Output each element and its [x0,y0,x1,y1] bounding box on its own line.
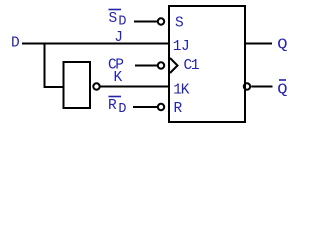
svg-text:Q: Q [277,36,287,52]
svg-text:1K: 1K [173,83,189,99]
svg-text:R: R [174,101,183,117]
wire branch into inverter input [44,86,64,88]
svg-text:1J: 1J [173,39,189,55]
overline of RD [109,96,122,98]
wire inverter bubble to 1K [101,86,170,88]
edge-trigger triangle C1 [170,58,178,73]
overline of SD [109,9,122,11]
svg-text:D: D [118,14,126,29]
wire SD to S bubble [134,21,157,23]
overline of Q-bar [279,79,286,81]
svg-text:D: D [11,36,20,52]
R input bubble [158,104,164,110]
wire RD to R bubble [133,106,157,108]
wire CP to C1 bubble [135,65,157,67]
wire D to 1J [22,43,169,45]
svg-text:Q: Q [277,82,287,98]
S input bubble [158,18,164,24]
svg-text:J: J [114,30,123,46]
flip-flop U1 body [169,6,245,122]
Q-bar output bubble [244,83,250,89]
inverter G1 output bubble [93,83,99,89]
svg-text:R: R [108,98,117,114]
svg-text:S: S [109,11,118,27]
svg-text:S: S [175,16,184,32]
svg-text:K: K [114,70,123,86]
svg-text:C1: C1 [184,58,199,74]
wire vertical branch from D node [44,43,46,88]
wire Q-bar output [251,86,272,88]
C1 input bubble [158,62,164,68]
svg-text:D: D [118,102,126,117]
wire Q output [245,43,272,45]
inverter G1 body [64,62,91,108]
